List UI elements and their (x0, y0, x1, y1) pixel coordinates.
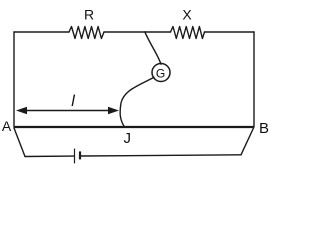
bridge wire AB (14, 126, 254, 128)
resistor R (69, 27, 104, 39)
wire left edge (13, 32, 15, 127)
wire right edge (253, 32, 255, 127)
wire bottom-left segment (25, 155, 74, 157)
wire B diagonal to bottom (241, 128, 254, 155)
wire junction to galvanometer (145, 32, 161, 64)
battery cell short plate (79, 151, 81, 159)
svg-text:J: J (124, 130, 132, 147)
wire A diagonal to bottom (14, 128, 25, 157)
svg-text:R: R (84, 7, 94, 23)
svg-text:B: B (259, 120, 269, 137)
svg-text:A: A (2, 118, 12, 134)
wire top-left segment (14, 31, 69, 33)
length arrow shaft (24, 110, 111, 112)
length arrow right head (108, 107, 119, 115)
svg-text:X: X (182, 7, 192, 23)
wire galvanometer to jockey J (120, 77, 154, 127)
wire top-right segment (205, 31, 255, 33)
galvanometer G circle (152, 64, 170, 82)
svg-text:G: G (156, 66, 165, 80)
svg-text:l: l (71, 93, 75, 110)
battery cell long plate (74, 149, 76, 164)
resistor X (171, 27, 205, 39)
length arrow left head (16, 107, 27, 115)
wire bottom-right segment (81, 155, 242, 156)
wire top-middle segment (104, 31, 171, 33)
